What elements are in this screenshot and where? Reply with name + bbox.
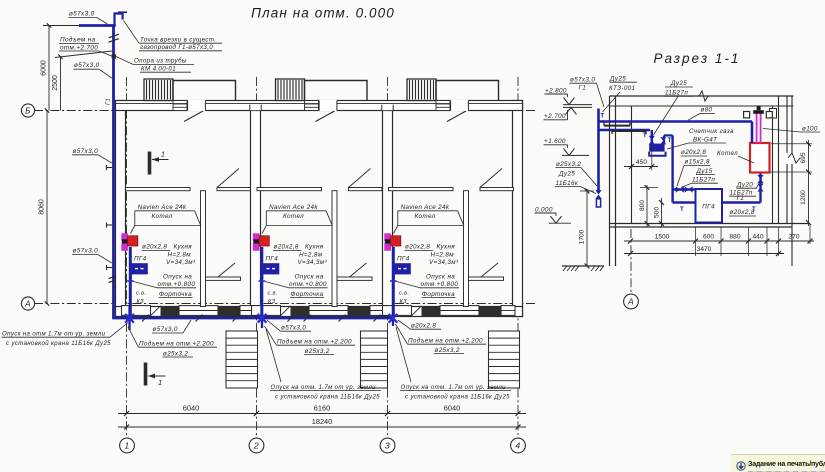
svg-text:1: 1 <box>161 149 165 158</box>
svg-text:Кухня: Кухня <box>174 244 193 251</box>
svg-text:6040: 6040 <box>444 404 460 413</box>
unit 3: entrance porch outline <box>436 81 499 101</box>
svg-text:ø57х3,0: ø57х3,0 <box>69 11 95 18</box>
section: gas stove PG4 <box>696 189 723 223</box>
dim chain 6000 <box>48 26 50 111</box>
unit 1: entry steps in top wall <box>173 101 187 111</box>
unit 3: gas stove PG4 symbol <box>395 263 411 274</box>
unit 1: entrance door opening in bottom wall <box>122 306 151 316</box>
svg-text:4: 4 <box>515 441 520 451</box>
section: pipe to stove <box>673 201 696 203</box>
svg-text:ВК-G4Т: ВК-G4Т <box>693 136 718 143</box>
section: right wall <box>772 106 774 224</box>
section: ground line + hatch <box>562 265 604 267</box>
elevation +2.700 <box>566 107 577 114</box>
unit 1: drop mark on riser <box>127 280 134 282</box>
unit 2: interior door swing (hall) <box>349 169 371 188</box>
svg-text:с.в.: с.в. <box>268 291 278 297</box>
svg-text:800: 800 <box>639 200 646 211</box>
svg-text:ø15х2,8: ø15х2,8 <box>685 159 710 166</box>
svg-text:V=34,3м³: V=34,3м³ <box>429 259 459 266</box>
unit 1: entrance door swing <box>184 111 203 122</box>
unit 2: riser pipe to boiler/stove <box>260 247 263 318</box>
dim 500 (vertical) <box>661 198 663 227</box>
dim line 6040/6160/6040 <box>118 413 526 415</box>
section: riser valve (Du25 11B16k) <box>595 190 601 199</box>
svg-text:Н=2,8м: Н=2,8м <box>299 252 323 259</box>
section cut mark 1 (bottom) <box>144 363 148 386</box>
svg-text:11Б16к: 11Б16к <box>556 180 579 187</box>
unit 2: chimney block (hatched) <box>276 79 305 101</box>
svg-text:440: 440 <box>752 233 763 240</box>
axis bubble 1 <box>120 438 135 453</box>
unit 1: boiler symbol (wall mounted) <box>121 233 128 241</box>
section: ceiling vents <box>744 112 750 118</box>
section bottom dim chain <box>624 240 814 242</box>
svg-text:ø80: ø80 <box>701 107 713 114</box>
unit 2: gas stove PG4 symbol <box>263 263 279 274</box>
svg-text:1700: 1700 <box>579 229 586 244</box>
unit 3: interior cross wall <box>389 188 454 191</box>
axis line 3 (vertical dash-dot) <box>387 77 389 438</box>
top wall inner double line <box>116 103 188 105</box>
svg-text:Котел: Котел <box>717 150 738 157</box>
dim chain 2500 <box>60 57 62 111</box>
pipe junction/riser unit 1 <box>128 307 130 331</box>
section: second horizontal pipe through wall <box>599 129 651 132</box>
svg-text:Форточка: Форточка <box>159 291 192 298</box>
svg-text:Г1: Г1 <box>579 85 587 92</box>
section: pipe G1 riser outside wall <box>597 109 600 192</box>
unit 2: entrance door opening in bottom wall <box>252 306 281 316</box>
svg-text:ø57х3,0: ø57х3,0 <box>73 148 99 155</box>
unit 2: masonry pier fills in bottom wall <box>291 306 309 316</box>
pipe G1: horizontal inlet at top <box>79 24 116 27</box>
svg-text:Navien Ace 24k: Navien Ace 24k <box>269 204 318 211</box>
svg-text:Точка врезки в сущест.: Точка врезки в сущест. <box>140 36 216 43</box>
svg-text:Подъем на: Подъем на <box>60 36 96 44</box>
axis bubble 2 <box>249 438 264 453</box>
section: branch with valves Du15 <box>673 188 696 190</box>
svg-text:с установкой крана 11Б16к Ду25: с установкой крана 11Б16к Ду25 <box>405 393 510 400</box>
dim 450 <box>624 166 658 168</box>
svg-text:6160: 6160 <box>314 404 330 413</box>
svg-text:Navien Ace 24k: Navien Ace 24k <box>401 204 450 211</box>
party wall gaps through top wall <box>250 105 261 111</box>
unit 1: interior cross wall <box>126 188 191 191</box>
svg-text:Котел: Котел <box>414 213 435 220</box>
pipe break marks lower <box>109 275 120 279</box>
dim line 18240 <box>118 426 526 428</box>
unit 1: top wall door opening <box>188 100 206 111</box>
svg-text:695: 695 <box>800 152 807 163</box>
svg-text:ø25х3,2: ø25х3,2 <box>556 161 581 168</box>
wall: party wall 1 <box>251 111 261 307</box>
svg-text:11Б27п: 11Б27п <box>692 177 715 184</box>
svg-text:отм.+0.800: отм.+0.800 <box>289 281 327 288</box>
section: gas meter VK-G4T <box>649 144 664 152</box>
section cut mark 1 (top, in unit 1) <box>148 152 152 175</box>
stairs unit 3 <box>489 331 520 388</box>
svg-text:отм.+0.800: отм.+0.800 <box>158 281 196 288</box>
section: pipe stove to boiler riser <box>722 201 761 203</box>
svg-text:ПГ4: ПГ4 <box>134 255 147 262</box>
axis line A (horizontal dash-dot) <box>34 303 536 305</box>
section: outer right edge with break <box>791 96 793 153</box>
section: drop to meter <box>651 130 653 144</box>
svg-text:ø57х3,0: ø57х3,0 <box>74 62 100 69</box>
svg-text:270: 270 <box>788 233 799 240</box>
wall: bottom exterior <box>116 307 523 317</box>
svg-text:с установкой крана 11Б16к Ду25: с установкой крана 11Б16к Ду25 <box>275 393 380 400</box>
unit 2: window 2 in bottom wall <box>370 306 388 316</box>
unit 2: bath partition stub <box>337 277 372 280</box>
svg-text:ø20х2,8: ø20х2,8 <box>274 244 299 251</box>
unit 2: entry steps in top wall <box>305 101 319 111</box>
section: main horizontal pipe at +2.700 <box>599 120 753 123</box>
axis bubble A <box>21 297 34 310</box>
unit 3: entrance door swing <box>447 111 466 122</box>
svg-text:Котел: Котел <box>283 213 304 220</box>
svg-text:Н=2,8м: Н=2,8м <box>431 252 455 259</box>
unit 3: entrance door opening in bottom wall <box>383 306 412 316</box>
svg-text:Ду25: Ду25 <box>558 170 575 177</box>
wall: top exterior <box>116 101 523 111</box>
svg-text:Б: Б <box>25 107 31 116</box>
svg-text:Н=2,8м: Н=2,8м <box>168 252 192 259</box>
unit 1: bath door swing <box>218 263 235 277</box>
dim 695/1200 (right side) <box>808 140 810 226</box>
unit 3: drop mark on riser <box>390 280 397 282</box>
svg-text:газопровод Г1-ø57х3,0: газопровод Г1-ø57х3,0 <box>140 44 213 51</box>
unit 2: entrance door swing (bottom) <box>280 306 291 316</box>
unit 1: window 1 in bottom wall <box>179 306 218 316</box>
svg-text:ø20х2,8: ø20х2,8 <box>681 149 706 156</box>
wall: right exterior <box>513 101 523 317</box>
stairs unit 2 <box>361 331 388 388</box>
unit 1: window 2 in bottom wall <box>240 306 258 316</box>
unit 2: interior cross wall <box>257 188 322 191</box>
svg-text:Опуск на: Опуск на <box>426 274 455 281</box>
pipe break marks <box>109 34 120 38</box>
svg-text:отм.+2.700: отм.+2.700 <box>60 44 98 51</box>
wall: left exterior <box>116 101 126 317</box>
pipe support ticks on bottom main <box>142 315 149 322</box>
section: riser lower tube <box>596 199 600 207</box>
svg-text:8060: 8060 <box>39 199 46 215</box>
unit 2: entrance porch outline <box>305 81 368 101</box>
unit 3: masonry pier fills in bottom wall <box>422 306 440 316</box>
unit 2: top wall door opening <box>319 100 337 111</box>
wall: party wall 2 <box>383 111 393 307</box>
unit 3: window 1 in bottom wall <box>440 306 479 316</box>
unit 3: chimney block (hatched) <box>407 79 436 101</box>
svg-text:ø25х3,2: ø25х3,2 <box>305 348 330 355</box>
unit 1: riser pipe to boiler/stove <box>129 247 132 318</box>
unit 2: kitchen partition wall <box>332 191 337 307</box>
section: floor slab <box>610 223 811 225</box>
svg-text:ø20х2,8: ø20х2,8 <box>411 322 436 329</box>
svg-text:Ду25: Ду25 <box>670 80 687 87</box>
svg-text:Опуск на отм. 1.7м от ур. земл: Опуск на отм. 1.7м от ур. земли <box>401 384 507 391</box>
section: flue d100 <box>756 113 758 144</box>
svg-text:1200: 1200 <box>800 190 807 205</box>
svg-text:500: 500 <box>654 207 661 218</box>
pipe G1: vertical run along building <box>112 26 115 319</box>
svg-text:А: А <box>24 300 31 309</box>
unit 3: bath partition stub <box>469 277 504 280</box>
section: pipe drop into boiler <box>751 122 754 144</box>
pipe junction/riser unit 2 <box>261 307 263 329</box>
svg-text:3470: 3470 <box>697 246 712 253</box>
svg-text:План на отм. 0.000: План на отм. 0.000 <box>251 6 395 21</box>
svg-text:Опуск на отм. 1.7м от ур. земл: Опуск на отм. 1.7м от ур. земли <box>271 384 377 391</box>
svg-text:600: 600 <box>703 233 714 240</box>
stairs unit 1 <box>226 331 258 388</box>
svg-text:2: 2 <box>253 441 259 451</box>
unit 1: masonry pier fills in bottom wall <box>161 306 179 316</box>
unit 3: interior door swing (hall) <box>480 169 502 188</box>
svg-text:6000: 6000 <box>41 60 48 76</box>
section: boiler (Kotel) <box>750 143 770 173</box>
svg-text:КТЗ-001: КТЗ-001 <box>609 85 635 92</box>
svg-text:Счетчик газа: Счетчик газа <box>689 128 734 135</box>
tooltip icon <box>736 461 746 471</box>
svg-text:11Б27п: 11Б27п <box>730 190 753 197</box>
dim chain 8060 (B to A) <box>46 111 48 304</box>
svg-text:ø20х2,8: ø20х2,8 <box>730 209 755 216</box>
svg-text:Разрез 1-1: Разрез 1-1 <box>654 51 741 66</box>
unit 3: bath door swing <box>481 263 498 277</box>
unit 3: top wall door opening <box>451 100 469 111</box>
axis bubble 3 <box>380 438 395 453</box>
unit 3: window 2 in bottom wall <box>501 306 515 316</box>
unit 1: chimney block (hatched) <box>144 79 173 101</box>
svg-text:КЗ: КЗ <box>137 299 145 305</box>
svg-text:2500: 2500 <box>52 75 59 91</box>
svg-text:Т: Т <box>680 207 684 213</box>
svg-text:+2.700: +2.700 <box>544 113 566 120</box>
svg-text:ø20х2,8: ø20х2,8 <box>405 244 430 251</box>
section: meter outlet pipe <box>663 135 665 144</box>
unit 2: entrance door swing <box>316 111 335 122</box>
svg-text:11Б27п: 11Б27п <box>665 90 688 97</box>
unit 3: entry steps in top wall <box>436 101 450 111</box>
unit 3: kitchen partition wall <box>464 191 469 307</box>
svg-text:ø57х3,0: ø57х3,0 <box>73 248 99 255</box>
svg-text:КМ 4.00-01: КМ 4.00-01 <box>141 65 176 72</box>
unit 2: bath door swing <box>350 263 367 277</box>
section: left wall <box>609 96 611 266</box>
status tooltip: print/publish job <box>731 454 825 472</box>
svg-text:ПГ4: ПГ4 <box>266 255 279 262</box>
svg-text:Кухня: Кухня <box>305 244 324 251</box>
svg-text:с.в.: с.в. <box>136 291 146 297</box>
unit 1: entrance door swing (bottom) <box>150 306 161 316</box>
pipe support ticks <box>107 167 113 169</box>
svg-text:ø25х3,2: ø25х3,2 <box>435 347 460 354</box>
unit 3: entrance door swing (bottom) <box>411 306 422 316</box>
svg-text:Подъем на отм.+2.200: Подъем на отм.+2.200 <box>277 337 352 345</box>
svg-text:ø57х3,0: ø57х3,0 <box>570 76 595 83</box>
svg-text:6040: 6040 <box>183 404 199 413</box>
svg-text:3: 3 <box>385 441 390 451</box>
unit 1: entrance porch outline <box>173 81 236 101</box>
dim 800 (vertical) <box>646 185 648 227</box>
unit 2: boiler symbol (wall mounted) <box>253 233 260 241</box>
unit 1: kitchen partition wall <box>201 191 206 307</box>
svg-text:ø100: ø100 <box>802 126 818 133</box>
svg-text:Подъем на отм.+2.200: Подъем на отм.+2.200 <box>408 336 483 344</box>
section: window in right wall <box>770 109 777 119</box>
section: wall sleeve marks <box>604 125 630 127</box>
partial second row <box>748 471 825 472</box>
svg-text:отм.+0.800: отм.+0.800 <box>421 281 459 288</box>
unit 2: drop mark on riser <box>259 280 266 282</box>
axis line 4 (vertical dash-dot) <box>517 77 519 438</box>
svg-text:1: 1 <box>124 441 129 451</box>
axis A (section) <box>630 229 632 294</box>
svg-text:ø57х3,0: ø57х3,0 <box>153 326 178 333</box>
extension lines <box>695 227 697 256</box>
svg-text:А: А <box>627 297 634 307</box>
svg-text:450: 450 <box>636 159 647 166</box>
svg-text:ПГ4: ПГ4 <box>702 204 715 211</box>
svg-text:ø20х2,8: ø20х2,8 <box>142 244 167 251</box>
svg-text:Navien Ace 24k: Navien Ace 24k <box>138 204 187 211</box>
svg-text:Опуск на: Опуск на <box>295 274 324 281</box>
svg-text:Т: Т <box>601 114 605 120</box>
svg-text:18240: 18240 <box>312 417 333 426</box>
svg-text:1: 1 <box>158 378 162 387</box>
svg-text:Ду15: Ду15 <box>696 168 713 175</box>
svg-text:Форточка: Форточка <box>422 291 455 298</box>
axis line B (horizontal dash-dot) <box>34 110 536 112</box>
pipe support point (opora) <box>112 54 116 58</box>
svg-text:с.в.: с.в. <box>399 291 409 297</box>
pipe: tie-in hook to existing gas main <box>115 14 123 26</box>
svg-text:Форточка: Форточка <box>291 291 324 298</box>
svg-text:Опора из трубы: Опора из трубы <box>134 58 187 65</box>
section: ceiling slab <box>610 95 794 97</box>
svg-text:КЗ: КЗ <box>400 299 408 305</box>
unit 2: window 1 in bottom wall <box>309 306 348 316</box>
svg-text:ПГ4: ПГ4 <box>397 255 410 262</box>
section: downpipe to appliances <box>671 135 673 202</box>
pipe junction/riser unit 3 (end of main) <box>392 307 394 327</box>
svg-text:+1.600: +1.600 <box>544 138 566 145</box>
pipe: underground main along building bottom <box>112 317 393 320</box>
unit 1: bath partition stub <box>206 277 241 280</box>
svg-text:1500: 1500 <box>655 233 670 240</box>
axis line 2 (vertical dash-dot) <box>256 77 258 438</box>
svg-text:Г1: Г1 <box>106 98 112 105</box>
svg-text:+2.800: +2.800 <box>545 87 567 94</box>
unit 3: boiler symbol (wall mounted) <box>384 233 391 241</box>
svg-text:Опуск на: Опуск на <box>163 274 192 281</box>
svg-text:V=34,3м³: V=34,3м³ <box>166 259 196 266</box>
section: ceiling break mark <box>699 91 708 101</box>
section dim 3470 <box>624 253 784 255</box>
svg-text:ø25х3,2: ø25х3,2 <box>163 350 188 357</box>
unit 1: gas stove PG4 symbol <box>132 263 148 274</box>
svg-text:с установкой крана 11Б16к Ду25: с установкой крана 11Б16к Ду25 <box>6 340 111 347</box>
svg-text:Кухня: Кухня <box>437 244 456 251</box>
svg-text:Опуск на отм 1.7м от ур. земли: Опуск на отм 1.7м от ур. земли <box>2 330 106 337</box>
svg-text:Ду20: Ду20 <box>736 181 753 188</box>
svg-text:0.000: 0.000 <box>535 206 553 213</box>
svg-text:Подъем на отм.+2.200: Подъем на отм.+2.200 <box>139 339 214 347</box>
unit 1: interior door swing (hall) <box>217 169 239 188</box>
svg-text:Котел: Котел <box>151 213 172 220</box>
unit 3: riser pipe to boiler/stove <box>392 247 395 318</box>
section: boiler feed riser with valves Du20 <box>759 173 761 203</box>
svg-text:Ду25: Ду25 <box>609 75 626 82</box>
svg-text:V=34,3м³: V=34,3м³ <box>298 259 328 266</box>
svg-text:880: 880 <box>729 233 740 240</box>
axis line 1 (vertical dash-dot) <box>126 77 128 438</box>
dim 1700 (vertical, outside) <box>586 191 588 266</box>
axis bubble B <box>21 104 34 117</box>
axis bubble 4 <box>511 438 526 453</box>
svg-text:КЗ: КЗ <box>268 299 276 305</box>
svg-text:ø57х3,0: ø57х3,0 <box>281 324 306 331</box>
